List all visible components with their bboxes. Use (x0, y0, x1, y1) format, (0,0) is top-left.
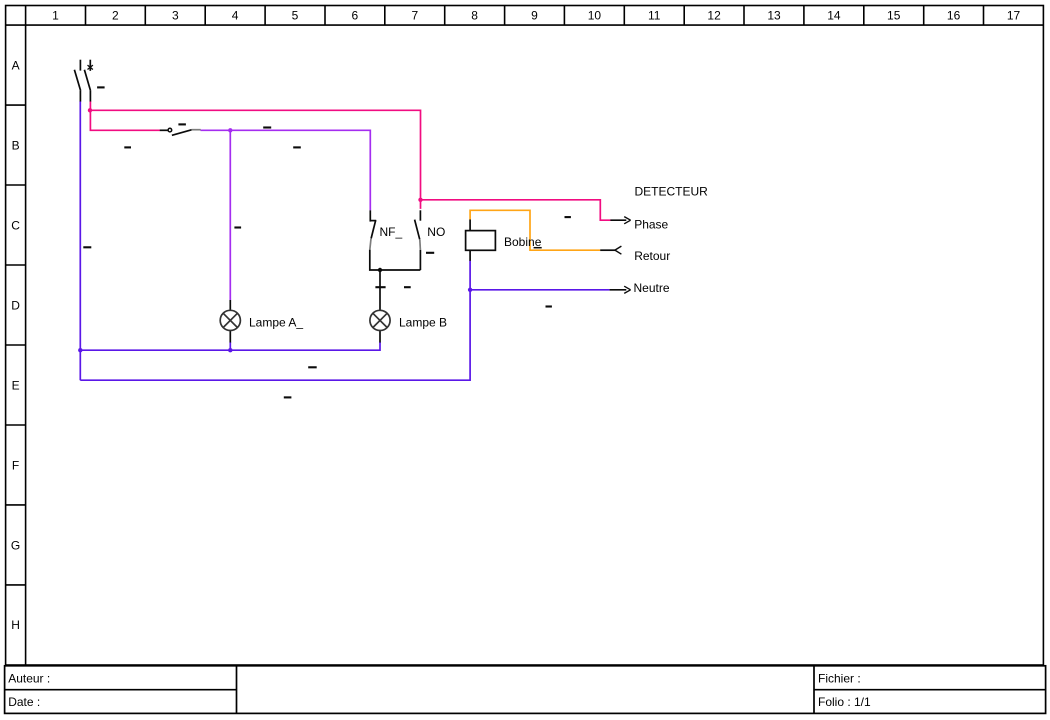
svg-text:12: 12 (707, 8, 721, 22)
svg-text:H: H (11, 618, 20, 632)
svg-text:Date :: Date : (8, 695, 40, 709)
svg-text:8: 8 (471, 8, 478, 22)
svg-text:Folio : 1/1: Folio : 1/1 (818, 695, 871, 709)
svg-text:Retour: Retour (634, 249, 670, 263)
svg-text:3: 3 (172, 8, 179, 22)
svg-text:10: 10 (588, 8, 602, 22)
svg-text:Lampe A_: Lampe A_ (249, 315, 303, 329)
svg-text:17: 17 (1007, 8, 1021, 22)
svg-text:9: 9 (531, 8, 538, 22)
svg-text:C: C (11, 218, 20, 232)
svg-text:Fichier :: Fichier : (818, 672, 861, 686)
svg-text:NF_: NF_ (380, 225, 403, 239)
svg-text:13: 13 (767, 8, 781, 22)
svg-text:NO: NO (427, 225, 445, 239)
svg-text:B: B (12, 138, 20, 152)
svg-text:D: D (11, 298, 20, 312)
svg-text:Phase: Phase (634, 218, 668, 232)
svg-text:15: 15 (887, 8, 901, 22)
svg-text:Bobine: Bobine (504, 235, 542, 249)
svg-text:6: 6 (352, 8, 359, 22)
svg-text:4: 4 (232, 8, 239, 22)
svg-text:F: F (12, 458, 19, 472)
svg-text:1: 1 (52, 8, 59, 22)
svg-text:11: 11 (648, 8, 661, 22)
svg-text:A: A (12, 58, 20, 72)
svg-text:2: 2 (112, 8, 119, 22)
svg-text:E: E (12, 378, 20, 392)
svg-text:G: G (11, 538, 20, 552)
svg-text:Auteur :: Auteur : (8, 672, 50, 686)
svg-text:DETECTEUR: DETECTEUR (635, 185, 709, 199)
svg-text:Neutre: Neutre (634, 281, 670, 295)
svg-text:5: 5 (292, 8, 299, 22)
svg-text:16: 16 (947, 8, 961, 22)
svg-text:Lampe B: Lampe B (399, 315, 447, 329)
svg-text:7: 7 (411, 8, 418, 22)
svg-text:14: 14 (827, 8, 841, 22)
